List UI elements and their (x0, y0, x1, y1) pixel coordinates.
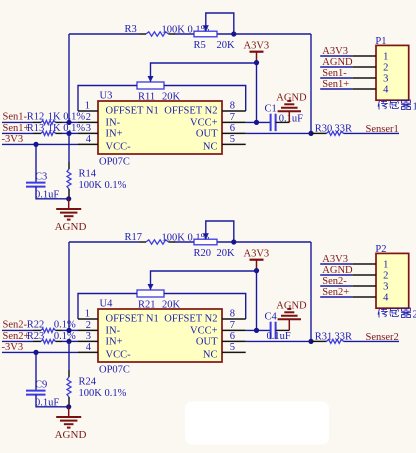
pin 4 of P2 (352, 296, 376, 298)
svg-text:Sen1-: Sen1- (3, 112, 28, 123)
pin 1 (78, 318, 98, 320)
svg-text:R20: R20 (194, 248, 212, 259)
svg-text:Sen2+: Sen2+ (3, 331, 30, 342)
svg-text:100K 0.1%: 100K 0.1% (79, 388, 127, 399)
wire: pin7 to C4 (246, 329, 270, 331)
junction: A3V3 / R11 wiper (254, 60, 259, 65)
pin 6 (222, 132, 246, 134)
svg-text:1K 0.1%: 1K 0.1% (48, 123, 86, 134)
pin 3 of P2 (352, 285, 376, 287)
capacitor C3 0.1uF (35, 144, 37, 181)
svg-text:20K: 20K (217, 40, 236, 51)
net label Sen2+ at P2 (320, 296, 352, 298)
potentiometer R21 20K (offset null) (137, 290, 164, 297)
junction: C3/R14 to AGND (66, 404, 71, 409)
net label A3V3 at P2 (320, 263, 352, 265)
svg-text:OUT: OUT (196, 337, 218, 348)
svg-text:AGND: AGND (276, 301, 307, 312)
wire: OUT to R30 junction (246, 132, 311, 134)
ground AGND (at C1) (288, 111, 290, 122)
svg-text:A3V3: A3V3 (322, 254, 348, 265)
net Sen1+ / resistor R13 (2, 132, 33, 134)
svg-text:IN+: IN+ (106, 129, 123, 140)
svg-text:Sen2-: Sen2- (3, 320, 28, 331)
svg-text:1K 0.1%: 1K 0.1% (48, 112, 86, 123)
svg-text:7: 7 (230, 112, 235, 123)
capacitor C4 0.1uF (decoupling) (270, 322, 272, 339)
pin 2 (78, 121, 98, 123)
junction: OUT node (308, 339, 313, 344)
wire: net Senser1 (344, 132, 400, 134)
svg-text:OFFSET N2: OFFSET N2 (164, 314, 217, 325)
svg-text:3: 3 (383, 74, 388, 85)
svg-text:C4: C4 (265, 311, 278, 322)
svg-text:8: 8 (230, 100, 235, 111)
svg-text:3: 3 (383, 282, 388, 293)
pin 7 (222, 329, 246, 331)
wire: A3V3 down to VCC+ pin 7 (256, 271, 258, 331)
net Sen2- / resistor R22 (2, 329, 33, 331)
wire: vertical from R5 junction down to OUT node (310, 242, 312, 341)
junction: A3V3 / R11 wiper (254, 268, 259, 273)
svg-text:33R: 33R (335, 123, 353, 134)
svg-text:2: 2 (383, 271, 388, 282)
op-amp U4 OP07C (98, 309, 222, 362)
svg-text:R5: R5 (194, 40, 206, 51)
junction: OUT node (308, 131, 313, 136)
svg-text:2: 2 (86, 112, 91, 123)
svg-text:Senser1: Senser1 (366, 124, 399, 135)
svg-text:A3V3: A3V3 (244, 248, 270, 259)
resistor R31 33R (311, 340, 327, 342)
svg-text:6: 6 (230, 331, 235, 342)
svg-text:1: 1 (85, 100, 90, 111)
svg-text:2: 2 (383, 63, 388, 74)
svg-text:3: 3 (86, 123, 91, 134)
wire: pin1 OFFSET N1 up to R11 left (78, 86, 137, 112)
svg-text:3: 3 (86, 331, 91, 342)
pin 7 (222, 121, 246, 123)
pin 1 of P1 (352, 55, 376, 57)
svg-text:Sen2-: Sen2- (322, 276, 347, 287)
svg-text:R12: R12 (27, 112, 45, 123)
svg-text:4: 4 (383, 293, 389, 304)
pin 1 of P2 (352, 263, 376, 265)
ground AGND (left) (68, 407, 70, 417)
net label Sen1- at P1 (320, 77, 352, 79)
svg-text:OUT: OUT (196, 129, 218, 140)
svg-text:OP07C: OP07C (99, 157, 130, 168)
resistor R14 100K 0.1% (68, 133, 70, 162)
pin 2 (78, 329, 98, 331)
ground AGND (left) (68, 199, 70, 209)
wire: R11 wiper to A3V3 (151, 63, 257, 82)
svg-text:IN-: IN- (106, 326, 121, 337)
resistor R30 33R (311, 132, 327, 134)
wire: top feedback horizontal run (69, 241, 140, 243)
svg-text:U4: U4 (100, 299, 114, 310)
svg-text:1: 1 (413, 102, 416, 113)
junction: feedback joins IN- (66, 120, 71, 125)
connector P1 (376, 45, 409, 100)
pin 1 (78, 110, 98, 112)
svg-text:-3V3: -3V3 (2, 342, 24, 353)
wire: feedback from OUT node up and over to IN- (left vertical) (68, 34, 70, 122)
svg-text:20K: 20K (217, 248, 236, 259)
svg-text:R3: R3 (125, 24, 137, 35)
pin 4 of P1 (352, 88, 376, 90)
resistor R24 100K 0.1% (68, 341, 70, 370)
svg-text:33R: 33R (335, 331, 353, 342)
label 传感器1 (sensor 1) (378, 100, 411, 110)
wire: OUT to R30 junction (246, 340, 311, 342)
op-amp U3 OP07C (98, 101, 222, 154)
potentiometer R5 20K (194, 31, 217, 37)
svg-text:P1: P1 (375, 36, 386, 47)
svg-text:0.1uF: 0.1uF (267, 331, 291, 342)
svg-text:VCC-: VCC- (106, 350, 132, 361)
svg-text:Senser2: Senser2 (366, 332, 399, 343)
net -3V3 wire to VCC- pin 4 (2, 351, 78, 353)
net -3V3 wire to VCC- pin 4 (2, 143, 78, 145)
svg-text:OP07C: OP07C (99, 365, 130, 376)
capacitor C9 0.1uF (35, 352, 37, 389)
svg-text:AGND: AGND (322, 57, 353, 68)
svg-text:NC: NC (203, 142, 218, 153)
net label Sen2- at P2 (320, 285, 352, 287)
svg-text:2: 2 (86, 320, 91, 331)
svg-text:5: 5 (230, 134, 235, 145)
junction: pin7/A3V3 (254, 120, 259, 125)
svg-text:AGND: AGND (276, 93, 307, 104)
svg-text:R13: R13 (27, 123, 45, 134)
svg-text:VCC+: VCC+ (190, 326, 218, 337)
junction: feedback joins IN- (66, 328, 71, 333)
svg-text:AGND: AGND (55, 221, 87, 233)
svg-text:OFFSET N1: OFFSET N1 (106, 314, 159, 325)
svg-text:-3V3: -3V3 (2, 134, 24, 145)
svg-text:VCC+: VCC+ (190, 118, 218, 129)
svg-text:R31: R31 (315, 331, 333, 342)
svg-text:R23: R23 (27, 331, 45, 342)
svg-text:R30: R30 (315, 123, 333, 134)
net label AGND at P2 (320, 274, 352, 276)
svg-text:Sen2+: Sen2+ (322, 287, 349, 298)
pin 4 (78, 143, 98, 145)
junction: R14 divider joins IN+ (66, 131, 71, 136)
net label AGND at P1 (320, 66, 352, 68)
connector P2 (376, 253, 409, 308)
wire: R21 right down to pin8 OFFSET N2 (164, 294, 246, 320)
pin 2 of P2 (352, 274, 376, 276)
pin 3 (78, 132, 98, 134)
potentiometer R11 20K (offset null) (137, 82, 164, 89)
white overlay box (blank sticker) (185, 402, 329, 445)
svg-text:0.1%: 0.1% (54, 320, 76, 331)
net label A3V3 at P1 (320, 55, 352, 57)
junction: C3 tap on -3V3 (33, 350, 38, 355)
net label Sen1+ at P1 (320, 88, 352, 90)
svg-text:1: 1 (383, 52, 388, 63)
potentiometer R20 20K (194, 239, 217, 245)
resistor R3 100K 0.1% (140, 33, 147, 35)
pin 2 of P1 (352, 66, 376, 68)
svg-text:OFFSET N2: OFFSET N2 (164, 106, 217, 117)
svg-text:1: 1 (383, 260, 388, 271)
svg-text:R24: R24 (79, 377, 97, 388)
svg-text:0.1uF: 0.1uF (35, 397, 59, 408)
svg-text:2: 2 (413, 310, 416, 321)
svg-text:7: 7 (230, 320, 235, 331)
wire: R11 right down to pin8 OFFSET N2 (164, 86, 246, 112)
svg-text:Sen1+: Sen1+ (322, 79, 349, 90)
wire: top feedback horizontal run (69, 33, 140, 35)
svg-text:IN-: IN- (106, 118, 121, 129)
pin 5 (222, 143, 246, 145)
svg-text:A3V3: A3V3 (244, 40, 270, 51)
junction: C3 tap on -3V3 (33, 142, 38, 147)
svg-text:R14: R14 (79, 169, 97, 180)
junction: R5 wiper to feedback wire (231, 239, 236, 244)
svg-text:R22: R22 (27, 320, 45, 331)
svg-text:6: 6 (230, 123, 235, 134)
svg-text:P2: P2 (375, 244, 386, 255)
svg-text:NC: NC (203, 350, 218, 361)
svg-text:0.1uF: 0.1uF (35, 189, 59, 200)
svg-text:0.1uF: 0.1uF (279, 113, 303, 124)
pin 6 (222, 340, 246, 342)
svg-text:100K 0.1%: 100K 0.1% (79, 180, 127, 191)
svg-text:0.1%: 0.1% (54, 331, 76, 342)
pin 8 (222, 318, 246, 320)
pin 5 (222, 351, 246, 353)
wire: feedback from OUT node up and over to IN- (left vertical) (68, 242, 70, 330)
svg-text:4: 4 (86, 134, 92, 145)
junction: C3/R14 to AGND (66, 196, 71, 201)
svg-text:4: 4 (383, 85, 389, 96)
svg-text:C9: C9 (35, 380, 47, 391)
wire: pin7 to C1 (246, 121, 270, 123)
svg-text:U3: U3 (100, 91, 113, 102)
label 传感器2 (sensor 2) (378, 308, 411, 318)
net Sen1- / resistor R12 (2, 121, 33, 123)
pin 8 (222, 110, 246, 112)
svg-text:Sen1-: Sen1- (322, 68, 347, 79)
svg-text:C3: C3 (35, 172, 47, 183)
svg-text:OFFSET N1: OFFSET N1 (106, 106, 159, 117)
ground AGND (at C4) (288, 319, 290, 330)
svg-text:C1: C1 (265, 103, 277, 114)
svg-text:IN+: IN+ (106, 337, 123, 348)
pin 3 of P1 (352, 77, 376, 79)
pin 3 (78, 340, 98, 342)
wire: A3V3 down to VCC+ pin 7 (256, 63, 258, 123)
wire: R21 wiper to A3V3 (151, 271, 257, 290)
svg-text:Sen1+: Sen1+ (3, 123, 30, 134)
svg-text:A3V3: A3V3 (322, 46, 348, 57)
wire: pin1 OFFSET N1 up to R21 left (78, 294, 137, 320)
svg-text:1: 1 (85, 308, 90, 319)
svg-text:R17: R17 (125, 232, 143, 243)
wire: net Senser2 (344, 340, 400, 342)
svg-text:8: 8 (230, 308, 235, 319)
svg-text:AGND: AGND (322, 265, 353, 276)
wire: vertical from R5 junction down to OUT node (310, 34, 312, 133)
svg-text:AGND: AGND (55, 429, 87, 441)
net Sen2+ / resistor R23 (2, 340, 33, 342)
capacitor C1 0.1uF (decoupling) (270, 114, 272, 131)
pin 4 (78, 351, 98, 353)
junction: pin7/A3V3 (254, 328, 259, 333)
junction: R14 divider joins IN+ (66, 339, 71, 344)
svg-text:4: 4 (86, 342, 92, 353)
junction: R5 wiper to feedback wire (231, 31, 236, 36)
resistor R17 100K 0.1% (140, 241, 147, 243)
svg-text:VCC-: VCC- (106, 142, 132, 153)
svg-text:5: 5 (230, 342, 235, 353)
